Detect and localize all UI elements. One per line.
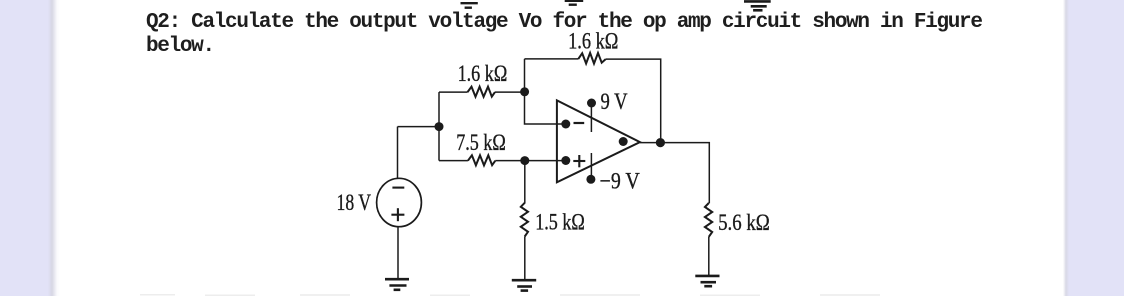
faint cut-off next line text at bottom: [140, 294, 880, 296]
resistor R2 7.5 kOhm with wires: [439, 160, 566, 162]
wire: source to ground: [397, 227, 399, 279]
resistor R_f 1.6 kOhm (feedback) with wires: [525, 59, 661, 138]
ground (partial, top right): [744, 1, 771, 10]
wire: vertical through node A: [438, 92, 440, 161]
wire: op-amp output: [640, 143, 709, 204]
ground (partial, top middle): [565, 1, 584, 5]
svg-text:1.6 kΩ: 1.6 kΩ: [458, 61, 508, 86]
node: junction of R2, R3 and non-inverting input: [520, 156, 529, 165]
wire: node A horizontal to source column: [398, 126, 440, 128]
ground (partial, top left): [461, 3, 478, 8]
svg-text:18 V: 18 V: [337, 190, 372, 215]
resistor R3 1.5 kOhm with wires: [524, 161, 526, 204]
resistor R4 5.6 kOhm: [705, 203, 712, 237]
svg-text:7.5 kΩ: 7.5 kΩ: [456, 130, 506, 155]
svg-text:9 V: 9 V: [601, 89, 628, 114]
op-amp U1: [557, 100, 640, 182]
op-amp inverting input terminal: [561, 120, 570, 129]
voltage source V1 18 V: [377, 178, 422, 226]
negative supply pin -9 V: [590, 153, 592, 179]
minus sign at inverting input: [574, 122, 585, 124]
node: output dot inside op-amp apex: [619, 137, 628, 146]
node: output junction with feedback: [656, 138, 665, 147]
svg-text:−9 V: −9 V: [600, 169, 641, 194]
question text: [146, 11, 982, 59]
node: junction of R1, feedback and inverting input: [520, 87, 529, 96]
node A: [435, 122, 444, 131]
ground (under 18V source): [385, 279, 409, 290]
svg-text:5.6 kΩ: 5.6 kΩ: [718, 210, 770, 235]
positive supply pin 9 V: [590, 104, 592, 133]
svg-text:1.5 kΩ: 1.5 kΩ: [535, 209, 585, 234]
wire: left feedback vertical down to inverting input: [525, 59, 566, 124]
op-amp non-inverting input terminal: [561, 156, 570, 165]
svg-text:1.6 kΩ: 1.6 kΩ: [568, 28, 618, 53]
plus sign at non-inverting input: [573, 155, 585, 167]
ground (under 5.6 kOhm): [695, 276, 719, 286]
resistor R1 1.6 kOhm (input) with wires: [439, 91, 525, 93]
wire: down to 18V source: [397, 127, 399, 179]
ground (under 1.5 kOhm): [512, 280, 536, 290]
